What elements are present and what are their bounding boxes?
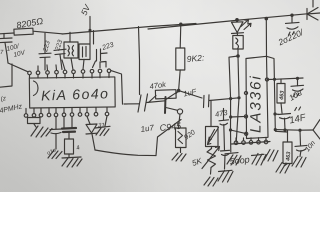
- svg-text:31: 31: [98, 122, 105, 129]
- svg-text:KiA 6o4o: KiA 6o4o: [41, 85, 110, 103]
- svg-text:9K2:: 9K2:: [186, 52, 205, 64]
- svg-text:LA336i: LA336i: [248, 74, 265, 133]
- svg-text:1u7: 1u7: [140, 123, 155, 134]
- svg-text:463: 463: [285, 151, 292, 162]
- svg-text:463: 463: [279, 90, 286, 101]
- svg-text:5oop: 5oop: [229, 154, 250, 166]
